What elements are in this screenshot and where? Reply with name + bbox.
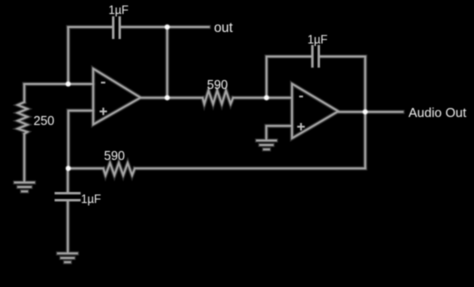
op-amp U2 plus sign	[297, 126, 305, 128]
wire C2 left segment	[267, 56, 312, 58]
wire non-inverting input U2	[266, 126, 292, 140]
ground below C3	[58, 252, 77, 254]
node junction bottom feedback	[66, 166, 71, 171]
svg-text:1µF: 1µF	[109, 5, 129, 17]
wire U1 output	[141, 97, 203, 99]
op-amp U2	[292, 84, 338, 139]
wire inverting input op-amp U1	[24, 83, 93, 85]
svg-text:590: 590	[207, 78, 228, 92]
ground below R1	[15, 182, 34, 184]
resistor R1 250	[18, 102, 28, 134]
wire C2 right segment	[320, 56, 365, 58]
wire U2 output to Audio Out	[338, 111, 402, 113]
capacitor C2 plates	[311, 46, 313, 66]
svg-text:250: 250	[34, 114, 55, 128]
wire non-inverting input U1	[68, 111, 93, 169]
wire bottom feedback left segment	[68, 167, 103, 169]
wire left input vertical	[23, 84, 25, 102]
svg-text:Audio Out: Audio Out	[409, 105, 467, 120]
wire top feedback right segment to out	[121, 26, 209, 28]
wire bottom feedback right segment	[135, 167, 365, 169]
capacitor C3 plates	[56, 192, 80, 194]
wire right feedback vertical	[364, 57, 366, 169]
op-amp U1 minus sign	[101, 82, 105, 84]
wire below C3	[67, 201, 69, 251]
svg-text:1µF: 1µF	[308, 34, 328, 46]
svg-text:590: 590	[104, 149, 125, 163]
op-amp U1 plus sign	[100, 110, 107, 112]
resistor R2 590	[203, 91, 234, 104]
wire R2 to U2 inverting input	[233, 97, 292, 99]
node junction U2 inverting	[264, 96, 269, 101]
wire vertical from C1 wire down to op-amp output node	[166, 27, 168, 98]
ground below U2 plus input	[257, 140, 276, 142]
wire below R1	[23, 134, 25, 182]
op-amp U2 minus sign	[299, 96, 303, 98]
svg-text:1µF: 1µF	[81, 194, 101, 206]
node junction U2 output	[363, 110, 368, 115]
node junction U1 output	[165, 96, 170, 101]
node junction top	[165, 25, 170, 30]
capacitor C1 plates	[112, 18, 114, 38]
wire vertical feedback left	[67, 27, 69, 84]
wire top feedback left segment	[68, 26, 112, 28]
op-amp U1	[93, 69, 140, 125]
wire vertical feedback U2 left	[266, 57, 268, 98]
node junction inverting input U1	[66, 82, 71, 87]
svg-text:out: out	[214, 20, 233, 35]
wire from bottom node down to C3	[67, 168, 69, 192]
resistor R3 590	[103, 163, 135, 175]
